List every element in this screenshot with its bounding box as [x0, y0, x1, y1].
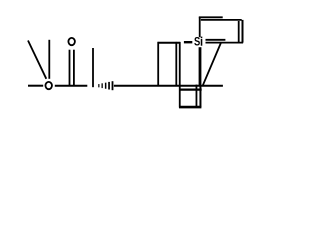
wire ring R2 left vertical	[199, 17, 201, 37]
wire ring R2 right outer vertical	[242, 20, 244, 43]
node ester O label	[45, 82, 52, 89]
hashed stereo bond	[98, 81, 113, 90]
wire vertical methyl above ester O	[48, 40, 50, 79]
wire square right edge	[199, 85, 201, 107]
wire main chain	[114, 85, 223, 87]
wire ring R2 top outer line	[199, 16, 223, 18]
wire ring R2 top inner line	[201, 19, 242, 21]
wire inner vertical of lower square	[195, 85, 197, 107]
node Si label	[194, 36, 202, 49]
wire methyl on stereocenter	[92, 48, 94, 87]
wire ring R2 bottom upper line	[206, 39, 226, 41]
wire square bottom edge	[179, 106, 201, 109]
wire bond Si down to square corner (L1)	[199, 47, 202, 86]
wire square top edge	[179, 88, 202, 90]
wire C=O double bond line 2	[73, 50, 75, 86]
wire bond ring bottom to chain junction (L2)	[203, 43, 221, 85]
wire ring R1 right vertical b / square left edge	[179, 42, 181, 108]
node carbonyl O label	[68, 38, 75, 45]
wire diagonal methyl above ester O	[28, 41, 46, 79]
wire ring R1 right vertical a	[175, 42, 177, 87]
wire ring R2 bottom lower line	[206, 42, 244, 44]
wire O to carbonyl C	[55, 85, 88, 87]
svg-text:S: S	[194, 36, 200, 49]
wire ring R1 top edge	[158, 42, 180, 44]
wire Si methyl dash	[184, 41, 192, 43]
wire ring R2 right inner vertical	[238, 21, 240, 43]
wire methyl C-O left	[28, 85, 43, 87]
wire C=O double bond line 1	[69, 50, 71, 86]
wire ring R1 left vertical	[157, 42, 159, 87]
